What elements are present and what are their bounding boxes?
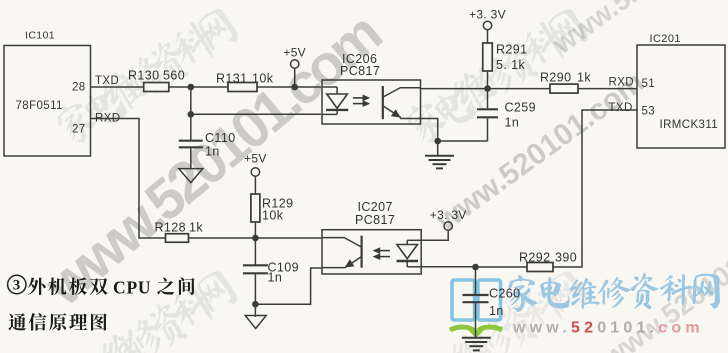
wire R290 to IC201 RXD [578, 88, 637, 90]
node +5V junction [291, 84, 298, 91]
svg-text:27: 27 [72, 124, 86, 136]
node B junction [188, 111, 195, 118]
node C junction [484, 85, 491, 92]
svg-text:R290: R290 [540, 71, 571, 85]
svg-text:53: 53 [642, 106, 656, 118]
svg-text:IRMCK311: IRMCK311 [660, 119, 719, 131]
transistor Q inside IC207 [322, 236, 362, 268]
wire node E to IC207 cathode [421, 266, 476, 268]
svg-text:51: 51 [642, 78, 656, 90]
wire R292 to node E [476, 266, 528, 268]
ground (C110) [179, 169, 203, 183]
IC207 light arrows [373, 247, 390, 260]
IC207 LED [397, 240, 422, 266]
svg-text:IC101: IC101 [25, 30, 55, 42]
svg-text:IC207: IC207 [358, 200, 393, 214]
node D junction [434, 138, 441, 145]
svg-text:78F0511: 78F0511 [16, 100, 63, 112]
IC206 light arrows [353, 95, 370, 108]
optocoupler IC207 PC817 box [322, 230, 421, 274]
+5V supply (bottom) [251, 168, 259, 176]
svg-text:RXD: RXD [609, 77, 634, 89]
+3.3V supply (top) [483, 21, 491, 29]
svg-text:www.520101.com: www.520101.com [512, 320, 704, 337]
svg-text:1k: 1k [577, 71, 591, 85]
resistor R129 [251, 194, 260, 222]
node F junction [252, 235, 259, 242]
capacitor C259 [487, 89, 489, 109]
wire R291 to node C [487, 71, 489, 89]
wire C260 to ground [475, 303, 477, 337]
logo text 家电维修资料网 [508, 273, 720, 312]
title line 1 [28, 277, 108, 295]
resistor R290 [550, 84, 578, 93]
ground (C260) [462, 337, 491, 339]
svg-text:IC201: IC201 [650, 33, 681, 45]
resistor R128 [166, 234, 189, 243]
capacitor C109 [254, 238, 256, 265]
node A junction [188, 84, 195, 91]
wire node D to ground [437, 141, 439, 156]
svg-text:1n: 1n [268, 271, 283, 285]
node G junction [252, 301, 259, 308]
watermark 家电维修资料网 top-left [51, 3, 242, 149]
wire +3.3V to R291 [487, 30, 489, 43]
watermark 家电维修资料网 top-right [401, 3, 592, 149]
wire node B to IC206 cathode [191, 113, 321, 115]
svg-text:+5V: +5V [244, 152, 267, 166]
svg-text:R128: R128 [155, 221, 186, 235]
svg-text:1k: 1k [189, 221, 203, 235]
wire RXD pin27 to R128 [91, 119, 166, 239]
IC U2: IC201 IRMCK311 (MCU) box [637, 45, 725, 148]
watermark 家电维修资料网 bottom-left [50, 265, 241, 353]
optocoupler IC206 PC817 box [322, 80, 421, 124]
svg-text:+5V: +5V [283, 46, 306, 60]
resistor R291 [483, 43, 493, 71]
svg-text:1n: 1n [505, 116, 520, 130]
svg-text:PC817: PC817 [340, 64, 380, 78]
svg-text:10k: 10k [262, 209, 284, 223]
svg-text:10k: 10k [252, 72, 274, 86]
wire +5V to R129 [254, 176, 256, 194]
svg-text:28: 28 [72, 82, 86, 94]
capacitor C110 [190, 114, 192, 140]
transistor Q inside IC206 [383, 86, 421, 119]
svg-text:R130: R130 [128, 69, 159, 83]
wire IC201 TXD down to R292 [553, 110, 637, 267]
wire IC206 emitter to ground node [421, 119, 438, 142]
+3.3V supply (bottom) [444, 222, 452, 230]
wire C109 to node G [254, 274, 256, 304]
wire IC206 collector to R290 [421, 88, 551, 90]
svg-text:+3. 3V: +3. 3V [430, 208, 467, 222]
wire R128 to IC207 collector [189, 237, 323, 239]
svg-text:TXD: TXD [95, 75, 119, 87]
wire R129 to node F [254, 222, 256, 238]
svg-text:R131: R131 [216, 72, 247, 86]
svg-text:1n: 1n [205, 145, 220, 159]
wire +3.3V to IC207 anode [421, 230, 449, 240]
resistor R130 [144, 83, 169, 92]
wire IC207 emitter to node G [255, 268, 322, 304]
title line 2 [8, 313, 106, 331]
svg-text:C260: C260 [489, 287, 520, 301]
capacitor C260 [475, 267, 477, 294]
wire C259 to ground node [487, 118, 489, 141]
resistor R292 [527, 263, 553, 272]
svg-text:R292: R292 [519, 251, 550, 265]
svg-text:TXD: TXD [609, 102, 633, 114]
svg-text:R291: R291 [496, 43, 527, 57]
svg-text:C110: C110 [205, 131, 236, 145]
IC U1: IC101 78F0511 (MCU) box [4, 46, 91, 157]
wire C110 to ground [190, 148, 192, 168]
ground (IC206 emitter) [425, 155, 454, 157]
node E junction [472, 264, 479, 271]
svg-text:3: 3 [13, 278, 21, 294]
title circled 3 [8, 275, 26, 293]
wire +5V to node [294, 68, 296, 87]
resistor R131 [228, 83, 257, 92]
svg-text:CPU: CPU [113, 277, 151, 297]
watermark 家电维修资料网 bottom-right [400, 265, 591, 353]
svg-text:+3. 3V: +3. 3V [469, 8, 506, 22]
svg-text:1n: 1n [489, 304, 504, 318]
svg-text:5. 1k: 5. 1k [496, 58, 525, 72]
svg-text:PC817: PC817 [355, 213, 395, 227]
IC206 LED [322, 87, 348, 114]
wire node A down [190, 87, 192, 114]
svg-text:560: 560 [163, 69, 185, 83]
wire TXD pin28 to R130 [91, 86, 144, 88]
wire R131 to IC206 anode [257, 86, 321, 88]
svg-text:390: 390 [555, 251, 577, 265]
wire R130 to R131 [169, 86, 228, 88]
svg-text:C259: C259 [505, 101, 536, 115]
wire node G to ground [254, 304, 256, 317]
+5V supply (top) [291, 60, 299, 68]
ground (C109) [245, 316, 266, 329]
logo book icon [450, 280, 502, 338]
